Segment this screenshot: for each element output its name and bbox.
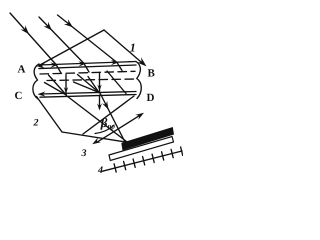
exit ray J2 to boundary point — [100, 93, 126, 143]
fan ray c to J2 — [88, 77, 99, 93]
svg-text:4: 4 — [97, 165, 103, 176]
double arrow boundary direction, up-right head — [97, 116, 140, 143]
angle arc beta_pr — [95, 125, 114, 134]
right wavy broken edge — [136, 62, 141, 99]
svg-text:D: D — [147, 92, 155, 104]
scale tick 4 — [143, 157, 145, 165]
top face upper line A-B — [39, 62, 136, 66]
refracted ray below P3 — [117, 63, 122, 71]
beam boundary apex to B with arrow at B — [104, 30, 144, 64]
svg-text:3: 3 — [81, 148, 87, 159]
bottom face lower line — [40, 95, 136, 98]
normal below J2 with down arrow — [99, 95, 101, 108]
fan ray a to J2 — [78, 75, 100, 93]
svg-text:B: B — [148, 68, 156, 80]
svg-text:2: 2 — [33, 118, 39, 129]
exit ray J1 to screen — [66, 96, 128, 143]
dashed layer upper — [40, 71, 135, 74]
vertical ray above J1 — [65, 75, 67, 96]
scale tick 5 — [152, 154, 154, 162]
grazing arrow 2 on top face — [78, 61, 86, 66]
interior ray to J3 — [107, 71, 126, 94]
refracted ray below P2 — [84, 64, 89, 73]
scale tick 6 — [162, 152, 164, 160]
beam boundary from C steep — [37, 97, 63, 133]
top face lower line — [39, 65, 136, 69]
svg-text:C: C — [15, 90, 23, 102]
svg-text:A: A — [18, 64, 26, 76]
ray 3 arrow down-left head — [92, 137, 101, 144]
screen plate 4 outline — [109, 137, 174, 161]
scale tick 3 — [133, 159, 135, 167]
dashed layer lower — [47, 79, 135, 81]
left arrowhead on top face at A — [37, 63, 45, 68]
scale tick 7 — [171, 149, 173, 157]
left wavy broken edge — [33, 64, 39, 99]
incident ray 2 — [39, 17, 84, 64]
grazing arrow 3 on top face — [111, 60, 119, 65]
grazing arrow 1 on top face — [50, 62, 58, 67]
beam boundary A to apex — [39, 30, 104, 66]
dark boundary line from D — [83, 96, 134, 134]
scale tick 2 — [124, 161, 126, 169]
refracted ray below P1 — [56, 65, 61, 74]
incident ray 1 — [10, 13, 56, 65]
vertical ray above J2 — [99, 74, 101, 93]
blackened region of screen — [121, 127, 174, 151]
scale tick 1 — [114, 164, 116, 172]
svg-text:1: 1 — [130, 41, 136, 55]
bottom face upper line C-D — [40, 92, 136, 95]
scale tick 8 — [181, 147, 183, 155]
incident ray 3 — [58, 15, 118, 63]
scale line — [102, 151, 182, 171]
fan ray a to J1 — [49, 75, 67, 95]
fan ray b to J2 — [74, 82, 100, 93]
left arrowhead on bottom face at C — [38, 91, 46, 96]
beam boundary from C shallow — [62, 132, 128, 142]
fan ray b to J1 — [45, 83, 67, 96]
